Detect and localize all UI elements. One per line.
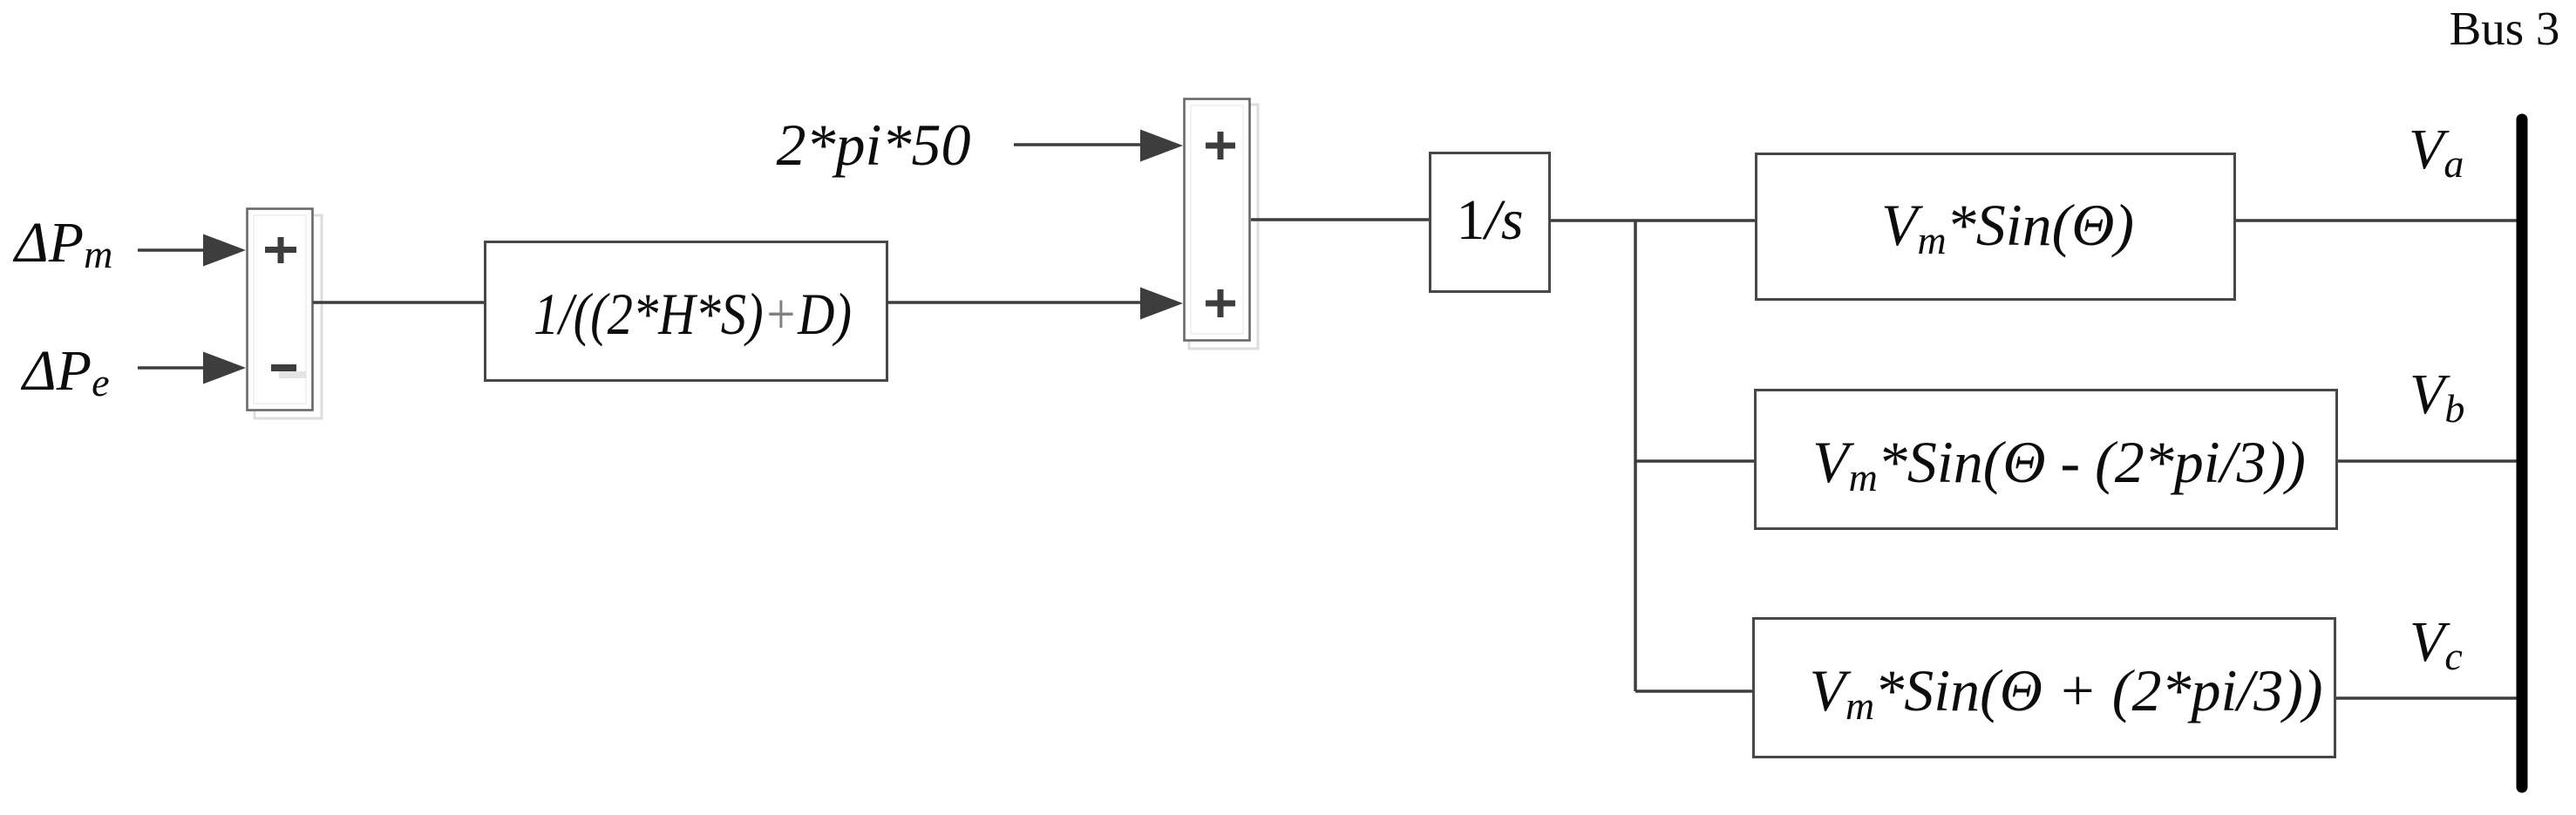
svg-text:1/s: 1/s — [1456, 188, 1523, 252]
arrowhead 2*pi*50 into sum S2 upper plus input — [1140, 130, 1183, 162]
svg-text:Vc: Vc — [2409, 610, 2463, 678]
svg-text:Bus 3: Bus 3 — [2450, 2, 2560, 55]
sum S1 minus sign ghost — [279, 371, 306, 378]
svg-text:1/((2*H*S)+D): 1/((2*H*S)+D) — [534, 281, 852, 347]
fcn block F3 Vm*Sin(O+(2*pi/3)) body — [1754, 619, 2335, 757]
integrator block U1 1/s body — [1431, 153, 1550, 292]
wire branch to fcn F2 — [1635, 459, 1756, 463]
sum S2 upper plus sign — [1206, 132, 1235, 160]
wire branch to fcn F3 — [1635, 689, 1754, 693]
svg-text:ΔPm: ΔPm — [12, 211, 112, 276]
gain block G1 1/((2*H*S)+D) body — [486, 242, 887, 381]
wire ΔPe to sum S1 — [138, 366, 206, 370]
wire fcn F1 output Va to bus — [2236, 219, 2522, 222]
sum block S1 inner highlight — [254, 215, 306, 404]
fcn block F1 Vm*Sin(O) body — [1757, 154, 2235, 300]
sum S1 plus sign — [265, 237, 296, 263]
svg-text:Vb: Vb — [2409, 363, 2464, 431]
svg-text:Vm*Sin(Θ + (2*pi/3)): Vm*Sin(Θ + (2*pi/3)) — [1809, 657, 2322, 728]
wire sum S1 output to gain block G1 — [313, 301, 486, 304]
wire integrator U1 output to fcn F1 — [1551, 219, 1757, 222]
wire gain G1 output to sum S2 — [887, 301, 1159, 304]
arrowhead gain G1 into sum S2 lower plus input — [1140, 288, 1183, 320]
sum block S1 body — [248, 209, 313, 411]
sum block S2 shadow — [1189, 105, 1258, 349]
wire 2*pi*50 to sum S2 — [1014, 143, 1142, 146]
junction branch vertical wire — [1634, 221, 1637, 691]
wire sum S2 output to integrator U1 — [1251, 218, 1431, 221]
sum S2 lower plus sign — [1206, 289, 1235, 317]
sum block S2 body — [1185, 99, 1250, 341]
wire fcn F3 output Vc to bus — [2336, 696, 2522, 700]
sum block S2 inner highlight — [1191, 105, 1243, 334]
sum block S1 shadow — [255, 215, 322, 418]
wire fcn F2 output Vb to bus — [2338, 459, 2522, 463]
sum S1 minus sign — [271, 364, 296, 371]
arrowhead ΔPe into sum S1 minus input — [203, 352, 246, 384]
fcn block F2 Vm*Sin(O-(2*pi/3)) body — [1756, 391, 2337, 529]
wire ΔPm to sum S1 — [138, 248, 206, 252]
svg-text:Va: Va — [2409, 118, 2464, 186]
svg-text:Vm*Sin(Θ - (2*pi/3)): Vm*Sin(Θ - (2*pi/3)) — [1812, 429, 2306, 499]
bus bar Bus 3 — [2517, 119, 2528, 787]
svg-text:2*pi*50: 2*pi*50 — [777, 112, 971, 178]
svg-text:ΔPe: ΔPe — [20, 339, 109, 404]
arrowhead ΔPm into sum S1 plus input — [203, 234, 246, 267]
